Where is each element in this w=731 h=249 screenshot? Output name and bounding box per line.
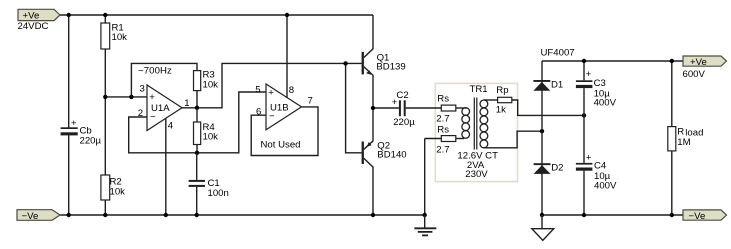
wire bottom -Ve rail left section [60, 214, 425, 216]
svg-text:1k: 1k [496, 104, 506, 115]
resistor R2 [101, 97, 125, 215]
node pin 8 on +Ve rail [285, 13, 289, 17]
svg-text:Rp: Rp [496, 85, 508, 96]
resistor R4 [194, 108, 219, 153]
resistor Rs lower [425, 124, 456, 155]
svg-text:+: + [392, 97, 398, 108]
wire Rs lower to ground [424, 139, 426, 216]
svg-text:1M: 1M [677, 137, 690, 148]
node U1A output / R3 / R4 [195, 106, 199, 110]
transformer TR1 core [474, 98, 477, 150]
svg-text:~700Hz: ~700Hz [138, 66, 172, 77]
wire secondary top to Rp [484, 99, 498, 101]
transformer TR1 secondary winding [480, 100, 488, 148]
-Ve supply tag left [17, 210, 60, 222]
capacitor C3 [576, 61, 617, 163]
wire Rp to C3/C4 midpoint [512, 100, 584, 115]
node Rload bottom on output -Ve rail [670, 213, 674, 217]
svg-text:400V: 400V [594, 180, 617, 191]
svg-text:4: 4 [168, 120, 174, 131]
svg-text:600V: 600V [683, 69, 706, 80]
node C4 bottom on output -Ve rail [582, 213, 586, 217]
capacitor C2 [392, 90, 415, 128]
svg-text:C2: C2 [396, 90, 408, 101]
svg-text:3: 3 [140, 84, 145, 95]
svg-text:U1B: U1B [270, 102, 289, 113]
svg-text:10k: 10k [203, 79, 219, 90]
svg-text:10k: 10k [112, 32, 128, 43]
svg-text:−Ve: −Ve [689, 211, 706, 222]
node C1 bottom on -Ve rail [195, 213, 199, 217]
-Ve output tag right [683, 210, 727, 222]
svg-text:+: + [71, 118, 77, 129]
node C3 top on +600V rail [582, 59, 586, 63]
svg-text:BD140: BD140 [377, 150, 406, 161]
+Ve supply tag (24VDC) [18, 9, 61, 32]
wire C2 to Rs upper [406, 107, 442, 109]
svg-text:TR1: TR1 [470, 84, 488, 95]
svg-text:+: + [268, 88, 274, 99]
svg-text:D2: D2 [551, 162, 563, 173]
capacitor C1 [189, 153, 229, 215]
wire bottom rail right section [542, 214, 683, 216]
node Q2 collector on -Ve rail [371, 213, 375, 217]
node Q1/Q2 base junction [343, 61, 347, 65]
node feedback tap on pin 3 wire [129, 95, 133, 99]
diode D1 [533, 80, 563, 91]
resistor R3 [194, 70, 219, 108]
wire U1A pin4 to -Ve rail [165, 118, 167, 215]
node ground junction [423, 213, 427, 217]
wire U1B pin8 to +Ve rail [286, 15, 288, 98]
node pin 4 on -Ve rail [164, 213, 168, 217]
transistor Q2 [362, 108, 407, 215]
svg-text:2.7: 2.7 [436, 114, 449, 125]
node R2 bottom on -Ve rail [103, 213, 107, 217]
node R4 bottom / C1 [195, 151, 199, 155]
wire secondary bottom to D1/D2 midpoint [484, 131, 542, 148]
node R1/R2 divider to pin 3 [103, 95, 107, 99]
resistor Rload [668, 61, 704, 215]
wire left vertical (Cb branch) [68, 15, 70, 215]
wire U1A output to transistor bases [182, 63, 362, 107]
ground earth triangle symbol [532, 215, 554, 240]
node D1/D2 midpoint [540, 129, 544, 133]
svg-text:5: 5 [255, 84, 260, 95]
svg-text:+Ve: +Ve [690, 57, 707, 68]
wire top +Ve rail [60, 14, 373, 16]
svg-text:R: R [677, 127, 684, 138]
transformer box TR1 outline [435, 83, 517, 181]
svg-text:10k: 10k [110, 186, 126, 197]
svg-text:24VDC: 24VDC [18, 21, 49, 32]
capacitor Cb [61, 118, 102, 147]
svg-text:230V: 230V [465, 169, 488, 180]
op-amp U1A [138, 84, 190, 132]
node C3/C4 midpoint [582, 113, 586, 117]
svg-text:C4: C4 [594, 161, 607, 172]
resistor R1 [101, 15, 127, 97]
wire U1B pin6/pin7 loop [251, 107, 318, 156]
node Cb bottom on -Ve rail [67, 213, 71, 217]
svg-text:+: + [586, 153, 592, 164]
wire Q2 base branch [346, 63, 362, 152]
transformer TR1 primary winding [456, 108, 470, 139]
transistor Q1 [362, 15, 406, 108]
diode D2 [534, 162, 564, 174]
wire pin3 input [105, 96, 147, 98]
wire diode string vertical [541, 61, 543, 215]
+Ve output tag (600V) [683, 56, 727, 80]
svg-text:10k: 10k [203, 132, 219, 143]
svg-text:6: 6 [256, 107, 261, 118]
svg-text:Rs: Rs [437, 124, 449, 135]
node D2 bottom on output -Ve rail [540, 213, 544, 217]
svg-text:2.7: 2.7 [436, 144, 449, 155]
svg-text:7: 7 [308, 96, 313, 107]
svg-text:220µ: 220µ [80, 135, 102, 146]
node top rail / Cb [67, 13, 71, 17]
wire pin2 feedback loop / C1 node / U1B pin5 [129, 92, 266, 153]
node R1 top on +Ve rail [103, 13, 107, 17]
svg-text:220µ: 220µ [393, 117, 415, 128]
svg-text:D1: D1 [551, 80, 563, 91]
ground chassis symbol [414, 215, 436, 235]
wire emitters node to C2 [373, 107, 399, 109]
svg-text:UF4007: UF4007 [541, 47, 575, 58]
svg-text:+: + [586, 69, 592, 80]
svg-text:BD139: BD139 [376, 62, 405, 73]
svg-text:−Ve: −Ve [22, 211, 39, 222]
node emitters junction [371, 106, 375, 110]
svg-text:8: 8 [289, 85, 294, 96]
resistor Rp [496, 85, 512, 115]
op-amp U1B [255, 84, 313, 130]
svg-text:U1A: U1A [151, 103, 170, 114]
svg-text:+: + [149, 92, 155, 103]
capacitor C4 [576, 153, 617, 215]
svg-text:Rs: Rs [437, 94, 449, 105]
wire ~700Hz feedback to R3 [131, 63, 197, 97]
svg-text:100n: 100n [208, 188, 229, 199]
resistor Rs upper [436, 94, 456, 125]
svg-text:400V: 400V [594, 98, 617, 109]
svg-text:Not Used: Not Used [261, 139, 301, 150]
node Rload top on +600V rail [670, 59, 674, 63]
svg-text:C3: C3 [594, 78, 606, 89]
wire +600V top rail [542, 60, 683, 62]
